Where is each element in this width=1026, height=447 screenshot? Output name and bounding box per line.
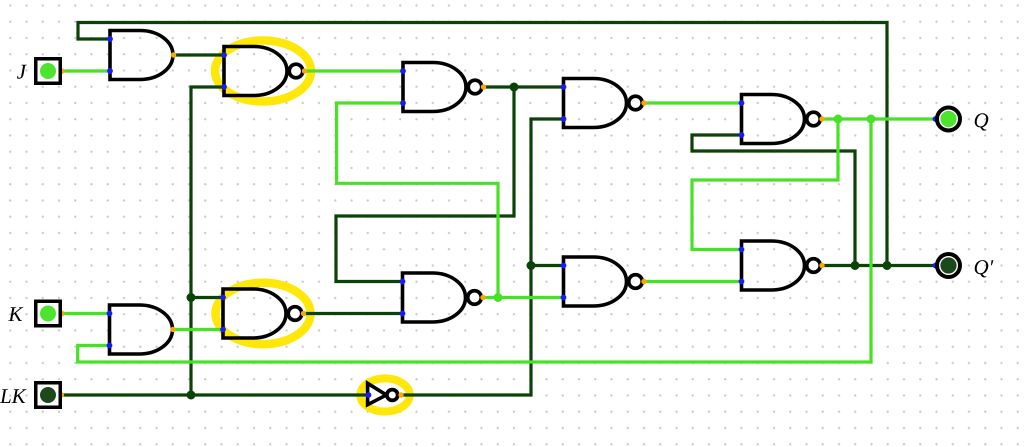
NAND gate U5: [742, 95, 821, 144]
wire U4 output to U5 input A: [644, 101, 742, 104]
NAND gate U7: [564, 257, 643, 306]
wire CLK to inverter U11 input: [62, 393, 369, 396]
wire Q branch down and back to U9 input B: [78, 119, 871, 362]
label K: [8, 307, 23, 321]
wire U1 output to U2 input A: [174, 53, 225, 56]
junction Q' net left: [851, 261, 860, 270]
output Q' (logic 0): [937, 254, 960, 277]
input pins (blue) and output pins (orange) of all gates: [59, 36, 939, 398]
wire U6 output feedback to U3 input B: [337, 103, 498, 298]
NAND gate U10: [223, 289, 302, 338]
wire input J to U1 input B: [62, 69, 110, 72]
label J: [17, 65, 27, 79]
AND gate U9: [110, 305, 173, 354]
junction CLK net: [187, 391, 196, 400]
wire Q' branch to U5 input B: [692, 135, 855, 266]
wire Q' feedback: U8 output net up over the top to U1 input A: [78, 23, 887, 266]
wire U9 output to U10 input B: [173, 328, 223, 331]
junction Q' net right: [883, 261, 892, 270]
wire input K to U9 input A: [62, 312, 110, 315]
wire CLK branch to U10 input A: [191, 296, 223, 299]
wire U5 output to Q pin: [822, 117, 936, 120]
NAND gate U4: [564, 79, 643, 128]
AND gate U1: [110, 31, 173, 80]
NAND gate U3: [403, 63, 482, 112]
inverter U11 (clock NOT gate): [368, 383, 398, 404]
wire U3 output branch down to U6 input A: [336, 87, 514, 282]
wire U10 output to U6 input B: [304, 312, 403, 315]
wire CLK vertical branch to U2 input B: [191, 87, 224, 395]
yellow highlight ellipse around inverter U11: [360, 378, 409, 411]
NAND gate U8: [742, 241, 821, 290]
junction U6 output net: [494, 293, 503, 302]
label CLK (clipped at left edge): [0, 389, 27, 403]
input K (logic 1): [36, 301, 61, 326]
junction inverted clock net at U7 input: [527, 261, 536, 270]
wire inverter U11 output up to U4 input B: [401, 119, 564, 395]
junction Q net left: [834, 115, 843, 124]
input CLK (logic 0): [36, 383, 61, 408]
wire U2 output to U3 input A: [305, 69, 404, 72]
label Q': [975, 260, 994, 277]
junction Q net right: [867, 115, 876, 124]
yellow highlight ellipse around gate U10: [216, 283, 311, 344]
wire inverted clock branch to U7 input A: [531, 264, 564, 267]
junction U3 output net: [510, 83, 519, 92]
output Q (logic 1): [937, 108, 960, 131]
junction CLK net to U10: [187, 293, 196, 302]
wire U6 output to U7 input B: [483, 296, 564, 299]
wire U8 output to Q' pin: [822, 264, 936, 267]
yellow highlight ellipse around gate U2: [215, 41, 311, 102]
NAND gate U2: [224, 47, 303, 96]
label Q: [975, 113, 989, 130]
input J (logic 1): [36, 59, 61, 84]
wire U3 output to U4 input A: [484, 85, 564, 88]
wire U7 output to U8 input B: [644, 280, 742, 283]
wire Q branch to U8 input A: [692, 119, 838, 250]
NAND gate U6: [403, 273, 482, 322]
